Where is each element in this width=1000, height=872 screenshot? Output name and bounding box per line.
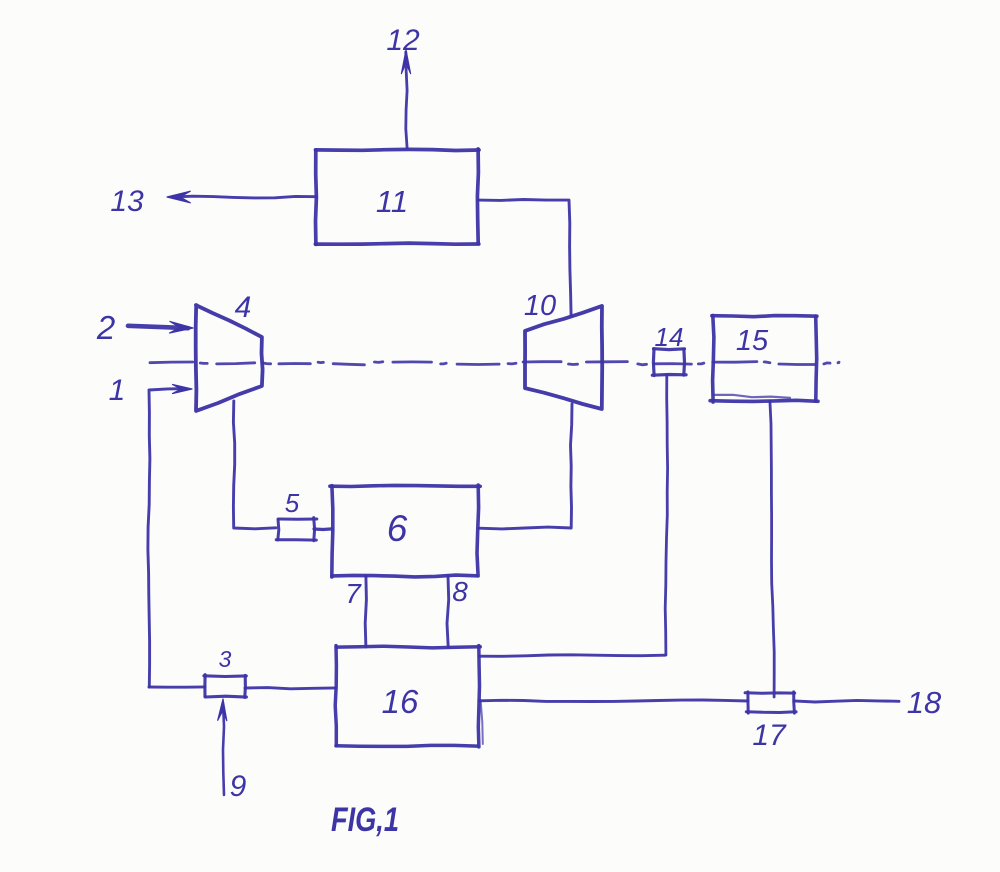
svg-text:11: 11 bbox=[376, 184, 408, 219]
turbine 10 bbox=[525, 306, 602, 409]
wire 1 (recirculation into compressor) bbox=[148, 389, 186, 687]
svg-text:16: 16 bbox=[382, 683, 419, 720]
block 3 bbox=[204, 675, 247, 698]
label 12 bbox=[386, 24, 420, 57]
label 17 bbox=[752, 719, 787, 752]
svg-text:6: 6 bbox=[387, 508, 408, 549]
wire block 11 to turbine 10 bbox=[478, 200, 571, 317]
arrowhead 13 bbox=[167, 191, 190, 203]
wire from node 1 to block 3 bbox=[149, 685, 205, 688]
svg-text:8: 8 bbox=[452, 576, 468, 607]
block 6 bbox=[330, 485, 480, 577]
label 15 bbox=[736, 325, 769, 357]
wire block 3 to block 16 bbox=[245, 688, 336, 689]
block 15 bbox=[710, 316, 818, 403]
svg-text:18: 18 bbox=[907, 685, 942, 720]
wire 8 (block 6 to block 16) bbox=[447, 576, 449, 647]
label 9 bbox=[230, 770, 247, 803]
wire 7 (block 6 to block 16) bbox=[365, 576, 366, 647]
svg-text:10: 10 bbox=[524, 290, 556, 322]
label 16 bbox=[382, 683, 419, 720]
valve 5 bbox=[276, 518, 317, 541]
label 6 bbox=[387, 508, 408, 549]
extra ink stroke on block 15 bottom bbox=[714, 395, 790, 398]
label 8 bbox=[452, 576, 468, 607]
label 5 bbox=[285, 488, 300, 518]
wire 13 (left out of block 11) bbox=[172, 196, 316, 198]
arrowhead 12 bbox=[401, 50, 410, 74]
label 10 bbox=[524, 290, 556, 322]
svg-text:13: 13 bbox=[110, 185, 144, 218]
wire 12 (exhaust up from block 11) bbox=[406, 52, 407, 148]
label 11 bbox=[376, 184, 408, 219]
wire compressor outlet down to valve 5 bbox=[233, 401, 276, 529]
svg-text:12: 12 bbox=[386, 24, 420, 57]
caption FIG.1 bbox=[331, 801, 399, 839]
svg-text:17: 17 bbox=[752, 719, 787, 752]
label 18 bbox=[907, 685, 942, 720]
svg-text:9: 9 bbox=[230, 770, 247, 803]
label 1 bbox=[109, 374, 126, 407]
wire block 16 to block 17 bbox=[479, 700, 748, 702]
svg-text:3: 3 bbox=[219, 646, 232, 672]
label 7 bbox=[345, 578, 362, 609]
wire block 15 down to block 17 bbox=[770, 401, 774, 697]
wire 9 (arrow into block 3) bbox=[223, 704, 224, 795]
wire turbine outlet to block 6 bbox=[479, 404, 572, 529]
svg-text:1: 1 bbox=[109, 374, 126, 407]
svg-text:4: 4 bbox=[235, 291, 252, 324]
svg-text:2: 2 bbox=[96, 309, 115, 346]
label 13 bbox=[110, 185, 144, 218]
extra ink stroke on block 16 right bbox=[481, 700, 483, 744]
wire 2 (inlet arrow to compressor) bbox=[128, 326, 188, 328]
label 4 bbox=[235, 291, 252, 324]
block 16 bbox=[335, 646, 480, 747]
svg-text:FIG,1: FIG,1 bbox=[331, 801, 399, 839]
label 3 bbox=[219, 646, 232, 672]
arrowhead 9 bbox=[218, 699, 227, 721]
block 17 bbox=[745, 692, 796, 713]
svg-text:5: 5 bbox=[285, 488, 300, 518]
svg-text:15: 15 bbox=[736, 325, 769, 357]
arrowhead 2 bbox=[170, 321, 194, 333]
wire valve 5 to block 6 bbox=[314, 527, 332, 531]
arrowhead 1 bbox=[173, 385, 193, 394]
block 11 bbox=[315, 149, 479, 244]
svg-text:7: 7 bbox=[345, 578, 362, 609]
svg-text:14: 14 bbox=[655, 322, 684, 352]
wire block 16 to block 14 line bbox=[479, 655, 665, 657]
shaft centerline bbox=[150, 362, 839, 365]
wire block 17 to 18 bbox=[794, 700, 899, 702]
compressor 4 bbox=[196, 305, 263, 411]
label 2 bbox=[96, 309, 115, 346]
label 14 bbox=[655, 322, 684, 352]
block 14 bbox=[652, 349, 686, 376]
wire block 14 down to block 16 bbox=[665, 375, 667, 655]
